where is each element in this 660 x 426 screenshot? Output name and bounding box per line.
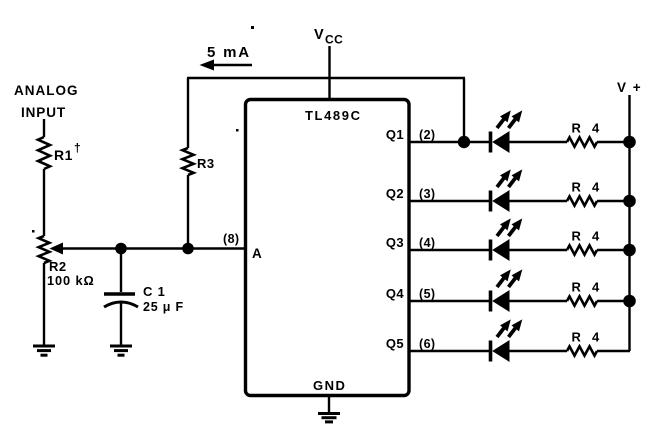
node Q1 junction bbox=[458, 136, 470, 148]
wire R4 to rail row4 bbox=[597, 300, 630, 302]
label TL489C bbox=[305, 108, 362, 123]
label R4 row4 bbox=[572, 280, 601, 295]
pin number (2) bbox=[419, 128, 435, 142]
label R3 bbox=[197, 156, 215, 171]
svg-text:4: 4 bbox=[592, 330, 600, 345]
pin label Q3 bbox=[386, 235, 404, 250]
capacitor C1 plates bbox=[104, 294, 138, 307]
resistor R1 bbox=[38, 137, 50, 169]
svg-text:C 1: C 1 bbox=[143, 284, 166, 299]
wire Q5 to LED bbox=[409, 350, 490, 352]
resistor R4 row2 bbox=[567, 196, 597, 205]
svg-text:4: 4 bbox=[592, 121, 600, 136]
resistor R4 row4 bbox=[567, 296, 597, 305]
wire LED to R4 row5 bbox=[509, 350, 567, 352]
wire R3 top bbox=[187, 78, 465, 148]
wire input to R1 bbox=[43, 119, 45, 137]
ground IC bbox=[318, 414, 340, 422]
wire Q2 to LED bbox=[409, 200, 490, 202]
wire Q1 to LED bbox=[409, 141, 490, 143]
svg-text:(4): (4) bbox=[419, 236, 435, 250]
pin number (4) bbox=[419, 236, 435, 250]
svg-text:R3: R3 bbox=[197, 156, 215, 171]
node rail row1 bbox=[623, 136, 636, 149]
resistor R4 row5 bbox=[567, 346, 597, 355]
svg-text:4: 4 bbox=[592, 229, 600, 244]
label R4 row2 bbox=[572, 180, 601, 195]
svg-text:INPUT: INPUT bbox=[21, 105, 66, 120]
op-amp U1 TL489C box bbox=[246, 100, 410, 396]
label VCC bbox=[314, 27, 343, 47]
wire R4 to rail row2 bbox=[597, 200, 630, 202]
svg-text:A: A bbox=[252, 246, 262, 261]
wire R4 to rail row5 bbox=[597, 350, 630, 352]
svg-text:(2): (2) bbox=[419, 128, 435, 142]
svg-text:CC: CC bbox=[325, 33, 343, 47]
svg-text:R: R bbox=[572, 180, 582, 195]
node C1 junction bbox=[115, 243, 127, 255]
wire R3 bottom bbox=[187, 175, 189, 249]
svg-text:†: † bbox=[74, 141, 81, 155]
wire Q3 to LED bbox=[409, 249, 490, 251]
pin label Q4 bbox=[386, 286, 405, 301]
svg-text:ANALOG: ANALOG bbox=[14, 83, 79, 98]
LED D3 bbox=[491, 218, 523, 261]
svg-text:5 mA: 5 mA bbox=[207, 44, 251, 61]
wire R1 to R2 bbox=[43, 169, 45, 236]
wire top to Q1 bbox=[463, 78, 465, 142]
svg-text:R2: R2 bbox=[49, 259, 67, 274]
svg-text:Q4: Q4 bbox=[386, 286, 405, 301]
svg-text:V +: V + bbox=[617, 80, 642, 95]
wire LED to R4 row3 bbox=[509, 249, 567, 251]
resistor R4 row1 bbox=[567, 137, 597, 146]
R2 wiper arrow bbox=[50, 243, 245, 255]
LED D4 bbox=[491, 269, 523, 312]
svg-text:(8): (8) bbox=[223, 232, 239, 246]
pin number (5) bbox=[419, 287, 435, 301]
LED D5 bbox=[491, 319, 523, 362]
wire R4 to rail row1 bbox=[597, 141, 630, 143]
wire LED to R4 row4 bbox=[509, 300, 567, 302]
label R4 row5 bbox=[572, 330, 601, 345]
pin number (6) bbox=[419, 337, 435, 351]
pin label Q2 bbox=[386, 186, 404, 201]
wire Q4 to LED bbox=[409, 300, 490, 302]
label V+ bbox=[617, 80, 642, 95]
svg-text:GND: GND bbox=[313, 378, 346, 393]
wire LED to R4 row1 bbox=[509, 141, 567, 143]
wire GND stem bbox=[328, 396, 330, 413]
svg-text:(3): (3) bbox=[419, 187, 435, 201]
wire C1 top bbox=[120, 249, 122, 293]
label C1 value bbox=[143, 284, 184, 314]
svg-text:V: V bbox=[314, 27, 324, 43]
svg-text:TL489C: TL489C bbox=[305, 108, 362, 123]
node A label bbox=[252, 246, 262, 261]
svg-text:25 μ F: 25 μ F bbox=[143, 300, 184, 314]
svg-text:Q5: Q5 bbox=[386, 336, 404, 351]
svg-text:R: R bbox=[572, 330, 582, 345]
node rail row4 bbox=[623, 295, 636, 308]
svg-text:Q3: Q3 bbox=[386, 235, 404, 250]
svg-text:R: R bbox=[572, 121, 582, 136]
label R4 row1 bbox=[572, 121, 601, 136]
label R1&#8224; bbox=[54, 141, 81, 163]
pin label Q5 bbox=[386, 336, 404, 351]
label GND bbox=[313, 378, 346, 393]
svg-text:4: 4 bbox=[592, 280, 600, 295]
label ANALOG INPUT bbox=[14, 83, 79, 120]
pin label Q1 bbox=[386, 127, 404, 142]
svg-text:R: R bbox=[572, 280, 582, 295]
resistor R3 bbox=[182, 148, 193, 175]
pin number (3) bbox=[419, 187, 435, 201]
label R4 row3 bbox=[572, 229, 601, 244]
current arrow 5 mA bbox=[200, 60, 253, 71]
svg-text:R1: R1 bbox=[54, 147, 73, 163]
LED D2 bbox=[491, 169, 523, 212]
node R3 junction bbox=[182, 243, 194, 255]
svg-text:4: 4 bbox=[592, 180, 600, 195]
ground C1 bbox=[110, 346, 132, 355]
potentiometer R2 bbox=[39, 236, 50, 263]
label R2 100 k&#937; bbox=[47, 259, 95, 288]
wire R2 to ground bbox=[43, 263, 45, 346]
svg-text:100 kΩ: 100 kΩ bbox=[47, 273, 95, 288]
wire R4 to rail row3 bbox=[597, 249, 630, 251]
wire C1 bottom bbox=[120, 301, 122, 346]
node rail row2 bbox=[623, 195, 636, 208]
node rail row3 bbox=[623, 244, 636, 257]
wire LED to R4 row2 bbox=[509, 200, 567, 202]
ground R2 bbox=[33, 346, 55, 355]
pin 8 label bbox=[223, 232, 239, 246]
label 5 mA bbox=[207, 44, 251, 61]
svg-text:Q2: Q2 bbox=[386, 186, 404, 201]
svg-text:R: R bbox=[572, 229, 582, 244]
svg-text:(5): (5) bbox=[419, 287, 435, 301]
wire VCC stem bbox=[328, 46, 330, 99]
power rail V+ bbox=[628, 95, 630, 351]
LED D1 bbox=[491, 110, 523, 153]
svg-text:(6): (6) bbox=[419, 337, 435, 351]
svg-text:Q1: Q1 bbox=[386, 127, 404, 142]
resistor R4 row3 bbox=[567, 245, 597, 254]
